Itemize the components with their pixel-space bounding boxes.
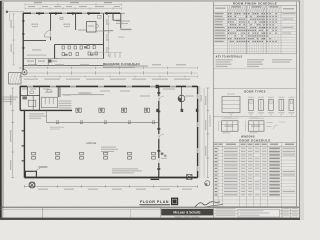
door type label B (248, 111, 254, 114)
line below key lists (213, 68, 296, 70)
empty band divider above door types (213, 87, 296, 89)
door jamb marks on interior long wall (157, 92, 160, 94)
ds header row (213, 146, 296, 148)
room label smudge lower row 1 (27, 61, 34, 62)
garage note block lower-middle (112, 168, 138, 169)
window type 2 elevation (249, 121, 265, 131)
upper plan: top dimension string row 2 (25, 7, 122, 9)
right panel right border (296, 2, 298, 208)
ds cell content smudges (215, 148, 218, 149)
overhead door dim smudge (227, 93, 235, 96)
rfs header band (213, 11, 296, 13)
ds rows (213, 149, 296, 151)
door types bottom divider (213, 116, 296, 118)
note smudge right of plan (121, 29, 132, 30)
interior long wall garage/parts (158, 87, 160, 178)
right side small dim marks (267, 121, 273, 124)
column base detail symbol bottom-left (30, 183, 35, 188)
saw cut note line2 (2, 99, 16, 100)
right panel left border (212, 2, 214, 208)
grid tick at x=143.5 (143, 71, 145, 75)
window gaps in top wall (31, 13, 36, 14)
small room box right of office 2 (87, 22, 97, 33)
upper plan right wing bottom wall (113, 19, 121, 21)
area note smudge (96, 31, 106, 32)
title strip divider 1 (41, 207, 43, 217)
office band bottom wall (20, 109, 72, 111)
office band room label smudges (22, 89, 27, 90)
restroom block left wall (54, 44, 56, 58)
left vertical dimension string lower plan (12, 88, 14, 178)
right wing note smudge line1 (116, 21, 130, 22)
plan area slightly lighter paper (4, 2, 299, 207)
title block inner line (0, 208, 161, 210)
upper plan interior wall C vertical (75, 14, 77, 31)
door type label E (278, 111, 284, 114)
upper plan interior wall B horizontal (23, 39, 46, 41)
door type D elevation (269, 100, 274, 111)
room label smudge lower row 3 (51, 61, 57, 62)
upper plan bottom wall (23, 64, 103, 66)
upper plan interior wall D-E connector (104, 30, 114, 32)
saw cut note line1 (2, 97, 18, 98)
note text block left of open bay (59, 101, 72, 102)
LCB label smudge (39, 166, 48, 167)
garage left exterior wall (23, 110, 25, 177)
garage corner utility box (25, 171, 36, 177)
piers on office band bottom wall right part (156, 109, 159, 112)
upper plan: top dimension string row 1 (25, 3, 122, 5)
garage interior line horizontal (46, 121, 158, 123)
garage note block upper-left (29, 113, 44, 114)
grid tick at x=47.5 (47, 71, 49, 75)
lower row partition 2 (47, 59, 49, 66)
upper plan top exterior wall (23, 12, 121, 14)
revision table in title strip (213, 207, 215, 217)
room label smudge lower row 2 (38, 61, 45, 62)
rfs row label smudges and cell marks (215, 13, 224, 14)
column at x=33.5 (32, 152, 36, 155)
right small cells in title strip (290, 207, 292, 217)
door swing arcs on interior long wall (159, 96, 164, 101)
top scan edge (0, 0, 304, 1)
tick marks on garage interior line (56, 121, 58, 124)
revision strip inner box (238, 209, 280, 217)
tiny note smudge (119, 37, 125, 38)
door type label A (228, 111, 234, 114)
upper plan right exterior wall (120, 13, 122, 28)
notes row above lower building wall (24, 79, 38, 80)
upper plan right wing wall vertical (112, 13, 114, 20)
ds remarks smudge row 1 (283, 148, 296, 149)
door mark lower row (49, 60, 52, 63)
left scan edge dark strip (0, 0, 2, 220)
restroom fixtures cluster (62, 46, 64, 49)
ds remarks smudge row 2 (283, 151, 296, 152)
right wall parallel face line (199, 86, 201, 177)
bottom scan edge dark strip (0, 218, 304, 220)
door arc at wall A (44, 31, 50, 38)
sheet border right (298, 1, 300, 218)
grid bubble with swing near interior wall (178, 95, 185, 102)
ds remarks smudge row 14 (283, 191, 296, 192)
grid tick at x=95.5 (95, 71, 97, 75)
second dimension string (20, 76, 198, 78)
title scale smudge (140, 205, 162, 208)
column at x=57.5 (56, 152, 60, 155)
grid tick at x=119.5 (119, 71, 121, 75)
dimension string above lower building (20, 67, 198, 69)
door schedule table frame (213, 143, 296, 207)
restroom fixture details lower band (28, 100, 36, 106)
McLean & Schultz logo box (161, 209, 213, 216)
ds header smudges (214, 144, 217, 145)
upper plan interior wall A lower stub (50, 37, 52, 40)
window gaps in lower top wall (27, 86, 33, 88)
rfs header angled label marks (228, 6, 230, 11)
window type 1 elevation (222, 121, 239, 131)
tick marks on garage left wall (22, 130, 25, 132)
grid tick at x=167.5 (167, 71, 169, 75)
column at x=153.5 (152, 152, 156, 155)
garage bottom exterior wall (24, 177, 197, 179)
door type B elevation (249, 100, 254, 111)
grid tick at x=71.5 (71, 71, 73, 75)
lower building top exterior wall (20, 85, 197, 87)
open bay column pairs along y=110 (76, 108, 78, 112)
room finish schedule table frame (213, 6, 296, 54)
door type C elevation (259, 100, 264, 111)
sheet border left (3, 2, 5, 208)
ds remarks smudge row 9 (283, 174, 296, 175)
lower row top line (23, 58, 58, 60)
counter note smudge (78, 93, 92, 94)
upper plan left exterior wall (22, 13, 24, 70)
small text under interior line left (50, 126, 64, 129)
hall label smudge (78, 30, 86, 31)
right scan margin (300, 0, 304, 220)
marks cluster right of interior wall (161, 153, 164, 155)
short ticks above title (109, 53, 111, 59)
office label below (32, 49, 41, 50)
door gaps in interior long wall (158, 96, 160, 101)
garage note block right (101, 147, 116, 148)
rfs group divider lines (246, 6, 248, 54)
small bay bottom wall step at interior wall (151, 178, 160, 180)
rfs header remarks label (283, 8, 294, 9)
column at x=81.5 (80, 152, 84, 155)
column grid line with bubbles (20, 72, 198, 74)
window 2 dims (245, 121, 247, 131)
rfs header room col label (215, 8, 226, 9)
rfs row lines (213, 14, 296, 16)
window 2 inner text (251, 126, 260, 127)
upper plan interior wall A vertical (50, 14, 52, 31)
overhead door elevation (222, 97, 240, 113)
door type label D (268, 111, 274, 114)
vertical dimension string x=108.5 (108, 16, 110, 56)
small door jamb marks on top wall (39, 12, 41, 15)
top-left short dimension leader (7, 11, 25, 13)
window gaps in right wall (197, 94, 199, 99)
door type F elevation (289, 100, 294, 111)
rfs vertical column lines (226, 6, 228, 54)
upper plan interior wall D vertical (103, 14, 105, 59)
door type E elevation (279, 100, 284, 111)
garage interior jog vertical (45, 111, 47, 123)
restroom block top wall (55, 43, 104, 45)
title block top border line (0, 206, 299, 208)
lower building right exterior wall (197, 86, 199, 178)
ds remarks smudge row 3 (283, 154, 296, 155)
sheet border top (4, 1, 300, 3)
lower building left wall upper band (19, 86, 21, 110)
right wing note smudge line2 (116, 23, 128, 24)
small room label smudge (88, 26, 94, 27)
window 1 dims (217, 121, 219, 131)
grid tick at x=191.5 (191, 71, 193, 75)
office band interior partitions (27, 87, 29, 96)
saw cut note line3 (2, 101, 12, 102)
column at x=105.5 (104, 152, 108, 155)
approval signature script (195, 202, 220, 207)
window 1 inner text (225, 126, 234, 127)
title strip divider 2 (130, 209, 132, 217)
rfs group header smudges (232, 6, 241, 7)
door type label C (258, 111, 264, 114)
bottom dimension string of plan (24, 185, 197, 187)
pier blob at top of interior long wall (156, 85, 159, 88)
LCB leader line (33, 168, 40, 172)
lower row partition 1 (35, 59, 37, 66)
column at x=129.5 (128, 152, 132, 155)
restroom block mid wall (55, 58, 104, 60)
left vertical dimension string upper plan (13, 14, 15, 65)
upper plan title scale smudge (103, 66, 135, 69)
title strip divider 3 (160, 207, 162, 217)
grid bubble bottom right (205, 181, 210, 186)
door type label F (288, 111, 294, 114)
right vertical dimension strings (203, 88, 205, 178)
title detail logo black box (171, 198, 178, 206)
grid bubble A (22, 70, 27, 75)
column base X detail bottom-right (187, 174, 192, 179)
note line in office (27, 55, 47, 56)
key to materials list smudges (3 columns, 4 rows) (216, 59, 233, 60)
door jamb marks on upper plan left wall (22, 20, 24, 22)
entry stoop outside left wall (9, 73, 21, 84)
ds remarks smudge row 8 (283, 171, 296, 172)
rotated dim smudge right of plan (201, 95, 202, 102)
misc small marks upper plan (60, 18, 63, 20)
